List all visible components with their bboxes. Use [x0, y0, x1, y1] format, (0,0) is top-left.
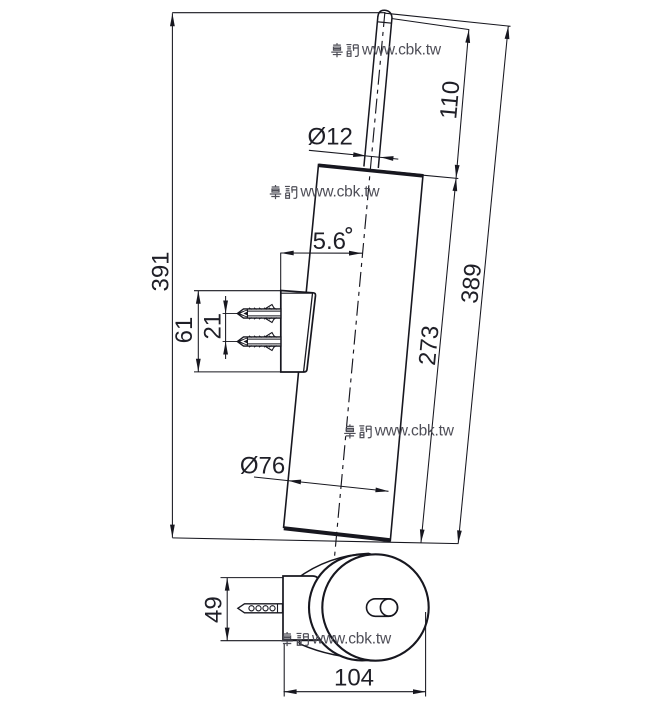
svg-text:www.cbk.tw: www.cbk.tw [311, 630, 392, 647]
svg-text:110: 110 [435, 80, 465, 121]
svg-text:21: 21 [199, 313, 226, 340]
svg-text:61: 61 [171, 317, 198, 344]
svg-text:Ø12: Ø12 [308, 124, 353, 151]
svg-text:389: 389 [456, 262, 487, 304]
svg-text:www.cbk.tw: www.cbk.tw [299, 183, 380, 200]
svg-text:273: 273 [414, 324, 445, 366]
svg-text:104: 104 [334, 665, 374, 692]
svg-text:391: 391 [147, 251, 174, 291]
svg-text:www.cbk.tw: www.cbk.tw [374, 423, 455, 440]
svg-text:49: 49 [201, 596, 228, 623]
svg-text:Ø76: Ø76 [240, 452, 285, 479]
svg-text:5.6: 5.6 [313, 228, 346, 255]
svg-text:www.cbk.tw: www.cbk.tw [361, 41, 442, 58]
